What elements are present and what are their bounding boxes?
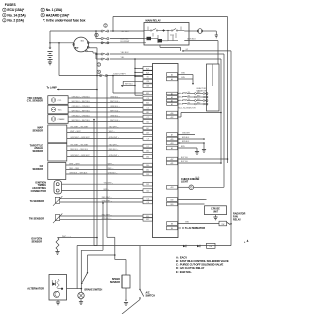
svg-text:B6: B6 (171, 228, 173, 230)
svg-text:B11: B11 (146, 112, 149, 114)
svg-text:D20: D20 (146, 174, 149, 176)
svg-text:ORN BLU --: ORN BLU -- (110, 116, 120, 118)
svg-text:YEL BLK: YEL BLK (121, 52, 130, 54)
svg-text:BRN BLK: BRN BLK (182, 137, 190, 139)
svg-text:HAZARD (10A)*: HAZARD (10A)* (46, 13, 70, 17)
svg-text:B8: B8 (171, 223, 173, 225)
svg-text:GRN WHT --: GRN WHT -- (109, 137, 120, 139)
svg-text:D19: D19 (146, 132, 149, 134)
svg-text:No.1- No.4 INJECTOR: No.1- No.4 INJECTOR (179, 108, 197, 110)
svg-text:B12: B12 (146, 219, 149, 221)
svg-text:No. 14 (15A): No. 14 (15A) (7, 13, 25, 17)
svg-text:ECU (15A)*: ECU (15A)* (7, 8, 24, 12)
svg-text:C9: C9 (147, 138, 149, 140)
svg-text:YEL: YEL (188, 96, 191, 98)
svg-text:B : FAST IDLE CONTROL SOLENOID: B : FAST IDLE CONTROL SOLENOID VALVE (176, 259, 229, 263)
svg-text:RED -- RED: RED -- RED (69, 168, 79, 170)
svg-text:SENSOR: SENSOR (32, 130, 43, 133)
svg-text:BRN BLK: BRN BLK (182, 141, 190, 143)
svg-text:TW SENSOR: TW SENSOR (29, 218, 44, 221)
svg-text:YEL WHT --: YEL WHT -- (109, 145, 119, 147)
svg-text:WHT --: WHT -- (109, 131, 115, 133)
svg-text:SENSOR: SENSOR (110, 281, 120, 284)
svg-text:TA SENSOR: TA SENSOR (30, 200, 45, 203)
svg-text:YEL WHT -- YEL WHT: YEL WHT -- YEL WHT (70, 127, 89, 129)
svg-text:BLK YEL: BLK YEL (181, 157, 188, 159)
svg-text:WHT BLU --: WHT BLU -- (110, 120, 120, 122)
svg-text:WHT -- WHT: WHT -- WHT (70, 131, 81, 133)
svg-text:ORN BLU --: ORN BLU -- (110, 97, 120, 99)
svg-text:RED WHT --: RED WHT -- (102, 197, 112, 199)
svg-text:YEL: YEL (188, 99, 191, 101)
svg-text:YEL WHT -- YEL WHT: YEL WHT -- YEL WHT (70, 145, 89, 147)
svg-text:C : PURGE CUT-OFF SOLENOID VAL: C : PURGE CUT-OFF SOLENOID VALVE (176, 263, 223, 267)
svg-text:YEL WHT --: YEL WHT -- (109, 127, 119, 129)
svg-text:B15: B15 (146, 93, 149, 95)
svg-text:E : EGR SOL.: E : EGR SOL. (176, 270, 192, 274)
svg-text:WHT BLU -- WHT BLU: WHT BLU -- WHT BLU (72, 120, 91, 122)
svg-text:B1: B1 (147, 76, 149, 78)
svg-text:GRN BLU --: GRN BLU -- (102, 218, 112, 220)
svg-text:RED BLU --: RED BLU -- (109, 149, 119, 151)
svg-text:To ALTERNATOR: To ALTERNATOR (185, 226, 205, 230)
svg-text:ORN BLU --: ORN BLU -- (110, 106, 120, 108)
svg-text:*: In the under-hood fuse box: *: In the under-hood fuse box (43, 19, 86, 23)
svg-text:GRN BLK: GRN BLK (187, 39, 196, 41)
svg-text:TW: TW (209, 246, 212, 248)
svg-text:RED WHT --: RED WHT -- (102, 215, 112, 217)
svg-text:WHT BLU --: WHT BLU -- (110, 101, 120, 103)
svg-text:To LAMP: To LAMP (47, 86, 58, 89)
svg-text:B19: B19 (171, 199, 174, 201)
svg-text:YEL: YEL (188, 92, 191, 94)
svg-text:WHT BLU -- WHT BLU: WHT BLU -- WHT BLU (72, 101, 91, 103)
svg-text:GRN WHT -- GRN WHT: GRN WHT -- GRN WHT (70, 137, 90, 139)
svg-text:GRN WHT: GRN WHT (182, 133, 190, 135)
svg-text:IG1: IG1 (81, 41, 84, 43)
svg-text:LIGHT: LIGHT (181, 181, 189, 184)
svg-text:C7: C7 (147, 117, 149, 119)
svg-text:MAIN RELAY: MAIN RELAY (146, 20, 162, 23)
svg-text:ORN BLU -- ORN BLU: ORN BLU -- ORN BLU (72, 106, 91, 108)
svg-text:BLU/WHT: BLU/WHT (121, 41, 131, 43)
svg-text:A : EACV: A : EACV (176, 255, 187, 259)
svg-text:WHT -- WHT: WHT -- WHT (69, 164, 80, 166)
svg-text:GRN BLK -- GRN BLK: GRN BLK -- GRN BLK (69, 173, 88, 175)
svg-text:No. 1 (15A): No. 1 (15A) (46, 8, 62, 12)
svg-text:D11: D11 (146, 150, 149, 152)
svg-text:GRN WHT --: GRN WHT -- (109, 155, 120, 157)
svg-text:WHT --: WHT -- (108, 164, 114, 166)
svg-text:BRN --: BRN -- (104, 189, 110, 191)
svg-text:BLK YEL: BLK YEL (181, 161, 188, 163)
svg-text:YEL WHT: YEL WHT (121, 31, 131, 33)
svg-text:ALTERNATOR: ALTERNATOR (27, 288, 44, 291)
svg-text:C18: C18 (146, 81, 149, 83)
svg-text:TW: TW (221, 224, 224, 226)
svg-text:No. 2 (10A): No. 2 (10A) (7, 19, 23, 23)
svg-text:C10: C10 (146, 191, 149, 193)
svg-text:C8: C8 (147, 202, 149, 204)
svg-text:D : A/C CLUTCH RELAY: D : A/C CLUTCH RELAY (176, 266, 205, 270)
svg-text:D14: D14 (146, 156, 149, 158)
svg-text:RED --: RED -- (108, 168, 114, 170)
svg-text:B13: B13 (146, 102, 149, 104)
svg-text:TDC: TDC (58, 110, 63, 112)
svg-text:D17: D17 (146, 128, 149, 130)
svg-text:CRUISE: CRUISE (211, 209, 220, 211)
svg-text:ORN BLU -- ORN BLU: ORN BLU -- ORN BLU (72, 97, 91, 99)
svg-text:B20: B20 (171, 204, 174, 206)
svg-text:C16: C16 (146, 86, 149, 88)
svg-text:RED BLU -- RED BLU: RED BLU -- RED BLU (70, 149, 88, 151)
svg-text:UNIT: UNIT (213, 212, 219, 214)
svg-text:INJECTOR: INJECTOR (197, 88, 207, 90)
svg-text:BRAKE SWITCH: BRAKE SWITCH (85, 288, 103, 291)
svg-text:SENSOR: SENSOR (31, 240, 42, 243)
svg-text:G2: G2 (186, 49, 188, 51)
svg-text:D10: D10 (146, 165, 149, 167)
svg-text:GRN WHT --: GRN WHT -- (102, 201, 113, 203)
svg-text:SWITCH: SWITCH (146, 294, 156, 297)
svg-text:SENSOR: SENSOR (32, 168, 43, 171)
svg-text:SENSOR: SENSOR (32, 150, 43, 153)
svg-text:FUSES: FUSES (5, 3, 17, 7)
svg-text:RESISTOR: RESISTOR (197, 91, 207, 93)
svg-text:WHT BLU: WHT BLU (125, 84, 133, 86)
svg-text:To ANTI-THEFT: To ANTI-THEFT (113, 73, 127, 76)
svg-text:GRN WHT -- GRN WHT: GRN WHT -- GRN WHT (70, 155, 90, 157)
svg-text:YEL: YEL (188, 103, 191, 105)
svg-text:YEL GRN --: YEL GRN -- (104, 183, 114, 185)
svg-text:C3: C3 (147, 98, 149, 100)
svg-text:CYL SENSOR: CYL SENSOR (27, 100, 43, 103)
svg-text:CONNECTOR: CONNECTOR (31, 190, 47, 193)
svg-text:CRANK: CRANK (58, 118, 66, 121)
svg-text:D1: D1 (147, 146, 149, 148)
svg-text:GRN BLK --: GRN BLK -- (108, 173, 118, 175)
svg-text:WHT BLU --: WHT BLU -- (110, 111, 120, 113)
svg-text:ORN BLU -- ORN BLU: ORN BLU -- ORN BLU (72, 116, 91, 118)
svg-text:WHT BLU -- WHT BLU: WHT BLU -- WHT BLU (72, 111, 91, 113)
svg-text:C5: C5 (147, 107, 149, 109)
svg-text:D21: D21 (146, 184, 149, 186)
svg-text:D12: D12 (146, 169, 149, 171)
svg-text:RELAY: RELAY (233, 219, 241, 222)
svg-text:C11: C11 (146, 121, 149, 123)
